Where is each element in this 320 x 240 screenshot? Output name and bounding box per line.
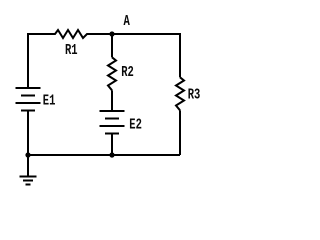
svg-text:A: A xyxy=(124,12,130,29)
svg-text:E1: E1 xyxy=(43,92,56,109)
svg-text:E2: E2 xyxy=(129,116,142,133)
svg-text:R2: R2 xyxy=(121,63,134,80)
svg-text:R3: R3 xyxy=(188,86,201,103)
svg-text:R1: R1 xyxy=(65,41,78,58)
